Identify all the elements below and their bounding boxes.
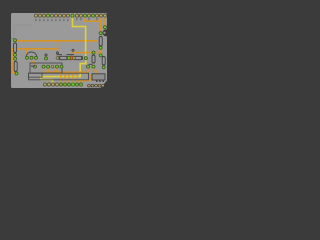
resistor R4 bbox=[73, 56, 82, 59]
wire: orange branch to Q1 pin 1 bbox=[26, 49, 28, 58]
wire: orange stub U1 pin to bus bbox=[43, 68, 45, 73]
Q1 pads bbox=[26, 56, 29, 59]
IC pads bbox=[42, 65, 45, 68]
wire: orange lower band and riser bbox=[78, 74, 91, 80]
wire: orange stubs bus to bottom header pads bbox=[61, 72, 81, 84]
connector J1 silkscreen outline bbox=[29, 73, 89, 80]
pcb board bbox=[11, 13, 107, 88]
wire: orange from C1 pad to connector bbox=[94, 67, 97, 74]
wire: orange stub under pin 101 bbox=[100, 16, 102, 22]
via2 bbox=[72, 49, 74, 51]
right cluster pads bbox=[87, 65, 90, 68]
resistor R1 body bbox=[14, 43, 17, 53]
tan pads misc bbox=[51, 57, 75, 68]
wire: orange route Q1 pin 2 to U1 bbox=[32, 58, 36, 66]
wire: orange bottom bus horizontal bbox=[44, 67, 89, 72]
wire: orange trace net2 left vertical to pad bbox=[12, 48, 17, 73]
capacitor C1 body bbox=[92, 55, 95, 63]
R2 pads bbox=[14, 57, 17, 60]
LED D1 bbox=[69, 56, 73, 60]
connector J2 pins bbox=[96, 80, 104, 82]
wire: yellow trace from header pin D upper run bbox=[73, 16, 86, 58]
pad 46 bbox=[45, 57, 48, 60]
resistor R5 body bbox=[99, 37, 102, 47]
mounting hole right edge bbox=[103, 29, 110, 36]
via bbox=[56, 52, 58, 54]
wire: orange trace net2 horizontal bbox=[12, 48, 58, 50]
via3 bbox=[45, 54, 47, 56]
resistor R3 bbox=[59, 56, 68, 59]
bottom header pads bbox=[43, 83, 82, 86]
wire: orange pad-to-pad right edge bbox=[104, 16, 106, 27]
top header pads group2 bbox=[75, 14, 106, 17]
wire: orange vertical net1 to via V1 bbox=[57, 41, 59, 53]
connector J1 left section outline bbox=[29, 73, 43, 77]
wire: orange trace top-right run bbox=[85, 16, 101, 33]
wire: orange stub to pad below C2 top bbox=[100, 53, 102, 56]
wire: orange stub U1 pin2 to bus bbox=[47, 68, 49, 73]
component pads green left column bbox=[14, 26, 107, 75]
wire: orange stub via V3 to pad bbox=[45, 55, 47, 58]
connector J2 body bbox=[92, 74, 105, 80]
wire: yellow trace lower run to bottom pad bbox=[41, 59, 86, 84]
ic U1 silkscreen outline bbox=[30, 63, 62, 73]
silkscreen faint rect upper-left bbox=[14, 25, 32, 38]
yellow end pad bbox=[84, 57, 87, 60]
wire: orange right column vertical bbox=[100, 48, 102, 54]
value labels text bbox=[31, 54, 93, 67]
wire: orange trace net1 horizontal bbox=[15, 40, 97, 42]
transistor Q1 silkscreen arc bbox=[26, 52, 37, 57]
wire: orange mid-right horizontal bbox=[73, 51, 99, 53]
top header pads group1 bbox=[34, 14, 74, 17]
bottom right small pads bbox=[88, 84, 105, 87]
resistor R2 body bbox=[14, 62, 17, 72]
background bbox=[0, 0, 120, 96]
R3 right pad bbox=[67, 57, 70, 60]
silkscreen stub to R1 pad bbox=[11, 38, 14, 40]
R1 pads bbox=[14, 39, 17, 42]
capacitor C2 body bbox=[102, 57, 105, 66]
top pad labels bbox=[35, 18, 97, 21]
wire: orange stub U1 pin3 bbox=[54, 68, 58, 71]
